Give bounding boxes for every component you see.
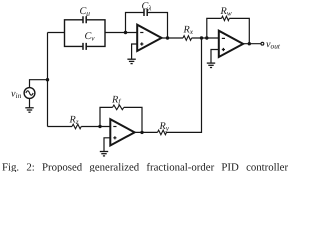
ground GND4 under U3 [100, 152, 108, 156]
op-amp U2 [219, 31, 243, 57]
capacitor Clambda (U1 feedback) [126, 9, 168, 38]
svg-text:Rw: Rw [220, 6, 232, 17]
node E U2 feedback junction [205, 36, 208, 39]
wire U3 plus input to ground [104, 138, 110, 152]
wire Vin bottom to ground [29, 98, 31, 107]
svg-text:Rf: Rf [111, 94, 121, 106]
node G U3 inverting input [98, 125, 101, 128]
resistor Rz [72, 124, 81, 129]
wire input bus vertical [47, 33, 49, 127]
wire U1 output [162, 37, 184, 39]
wire U2 output to terminal [243, 43, 261, 45]
source Vin [24, 88, 35, 99]
svg-text:vin: vin [11, 89, 22, 101]
node F U2 output junction [248, 42, 251, 45]
capacitor Cmu (top branch of block) [65, 16, 106, 32]
wire U3 output [135, 131, 158, 133]
capacitor Cnu (bottom branch of block) [65, 33, 106, 50]
svg-text:Cμ: Cμ [80, 6, 91, 17]
terminal vout [261, 42, 264, 45]
wire Vin top to node A [30, 80, 48, 88]
svg-text:vout: vout [266, 39, 281, 51]
svg-text:Rz: Rz [69, 115, 79, 127]
svg-text:Fig. 2: Proposed generalized f: Fig. 2: Proposed generalized fractional-… [2, 162, 288, 172]
resistor Rw (U2 feedback) [207, 16, 250, 44]
node C U1 output junction [166, 36, 169, 39]
wire block to U1 inverting input [105, 32, 137, 34]
svg-text:Cλ: Cλ [142, 1, 153, 13]
resistor Ry [158, 130, 167, 135]
wire U1 plus input to ground [132, 44, 138, 59]
resistor Rf (U3 feedback) [100, 105, 142, 132]
ground GND3 under U2 [207, 63, 215, 67]
svg-text:Ry: Ry [159, 121, 170, 133]
node A input junction [46, 78, 49, 81]
node B U1 inverting input [124, 31, 127, 34]
node D summing junction [200, 36, 203, 39]
op-amp U3 [110, 119, 134, 145]
wire Rx to U2 inverting input [192, 37, 219, 39]
wire Ry up to node D [166, 38, 201, 132]
ground GND1 under Vin [25, 108, 33, 112]
wire node A to capacitor block [48, 32, 65, 34]
wire U2 plus input to ground [211, 50, 219, 63]
svg-text:Rx: Rx [183, 25, 194, 37]
wire Rz to U3 inverting input [81, 126, 110, 128]
svg-text:Cν: Cν [85, 31, 96, 43]
node H U3 output junction [140, 131, 143, 134]
op-amp U1 [137, 25, 161, 51]
ground GND2 under U1 [127, 59, 135, 63]
wire bus to Rz [48, 126, 73, 128]
resistor Rx [183, 36, 192, 41]
